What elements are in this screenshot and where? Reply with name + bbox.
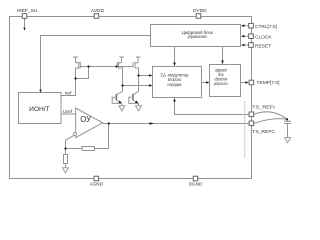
svg-text:TEMP[7:0]: TEMP[7:0] bbox=[257, 80, 280, 86]
svg-text:результата: результата bbox=[214, 81, 228, 86]
svg-text:DVDD: DVDD bbox=[193, 8, 207, 14]
svg-text:TS_REFC: TS_REFC bbox=[252, 129, 275, 135]
svg-text:Iref: Iref bbox=[65, 91, 73, 97]
svg-text:AGND: AGND bbox=[90, 181, 104, 186]
svg-text:RESET: RESET bbox=[255, 44, 271, 50]
svg-text:порядка: порядка bbox=[168, 82, 182, 87]
svg-text:AVDD: AVDD bbox=[91, 8, 105, 14]
svg-text:ИОН/Т: ИОН/Т bbox=[29, 107, 50, 113]
svg-text:DGND: DGND bbox=[189, 181, 203, 186]
svg-text:ОУ: ОУ bbox=[80, 115, 91, 124]
svg-text:управления: управления bbox=[188, 34, 207, 39]
svg-text:Uref: Uref bbox=[63, 109, 73, 115]
svg-text:IREF_SU: IREF_SU bbox=[17, 8, 38, 14]
svg-text:CTRL[7:0]: CTRL[7:0] bbox=[255, 24, 277, 30]
svg-text:CLOCK: CLOCK bbox=[255, 34, 272, 40]
svg-text:TS_REFI: TS_REFI bbox=[252, 105, 274, 111]
